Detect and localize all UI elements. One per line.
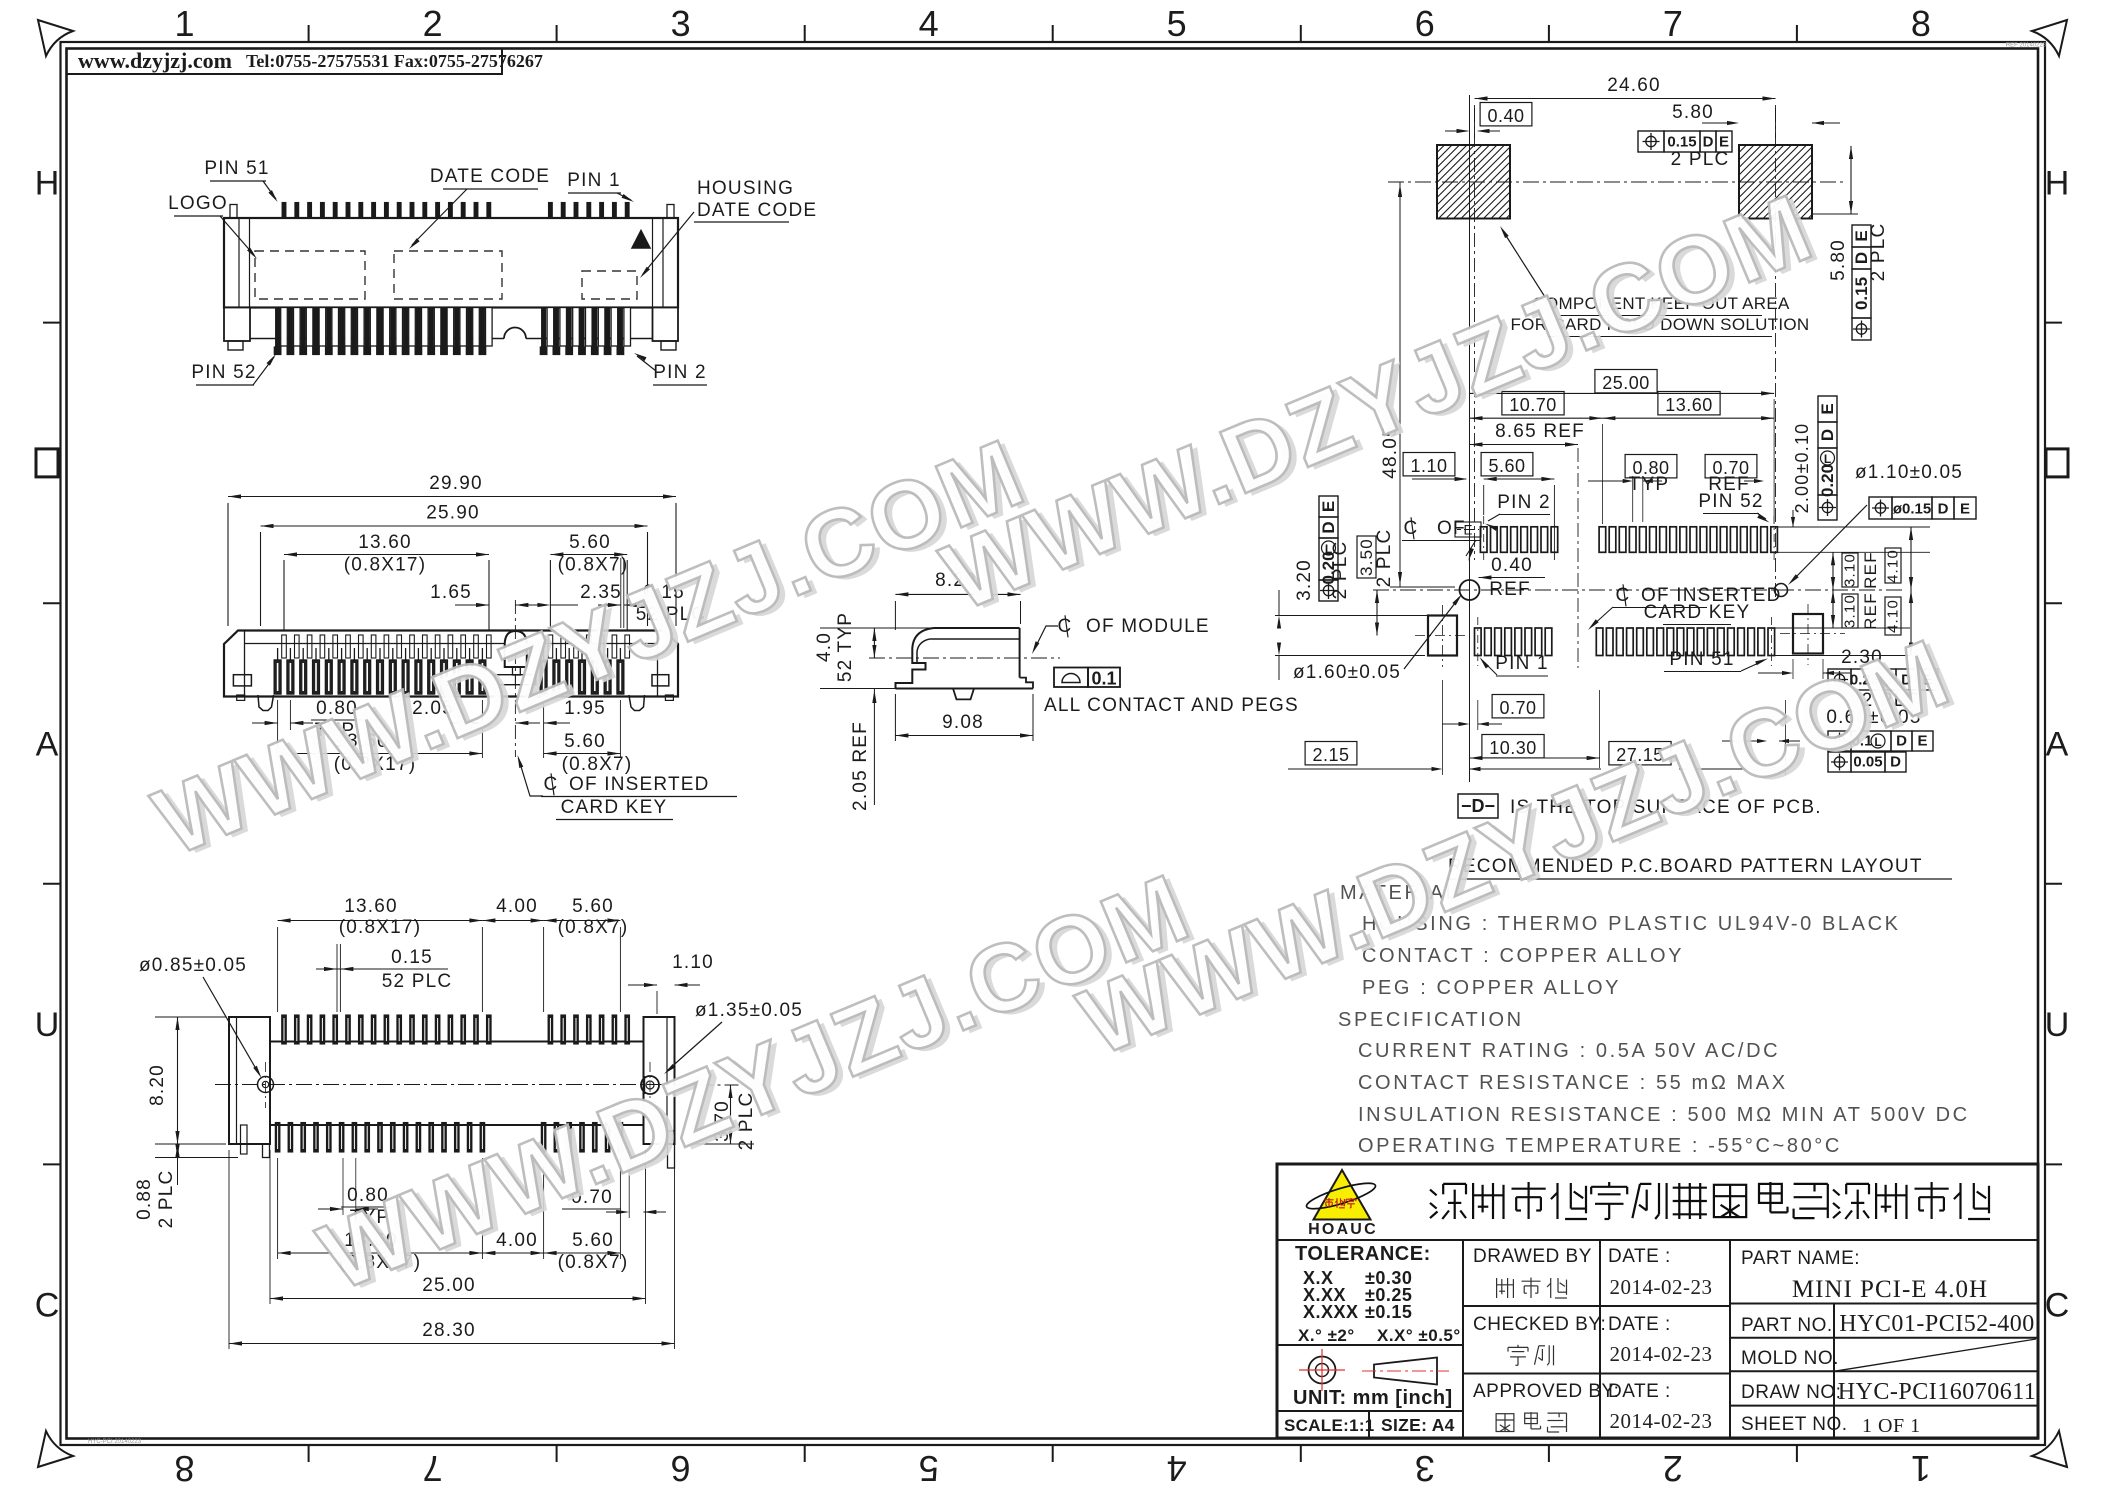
svg-text:0.70: 0.70 (1499, 698, 1536, 718)
svg-text:8: 8 (174, 1448, 194, 1488)
svg-text:SIZE: A4: SIZE: A4 (1381, 1415, 1455, 1435)
svg-text:PART NAME:: PART NAME: (1741, 1248, 1860, 1269)
svg-text:13.60: 13.60 (358, 532, 412, 553)
svg-text:TYP: TYP (1629, 474, 1670, 495)
svg-text:2014-02-23: 2014-02-23 (1610, 1342, 1713, 1366)
svg-text:5.60: 5.60 (564, 731, 606, 752)
svg-text:OF MODULE: OF MODULE (1086, 616, 1210, 637)
svg-text:APPROVED BY:: APPROVED BY: (1473, 1381, 1619, 1402)
svg-text:SCALE:1:1: SCALE:1:1 (1284, 1416, 1375, 1435)
svg-text:7: 7 (423, 1448, 443, 1488)
svg-text:DATE CODE: DATE CODE (697, 200, 817, 221)
svg-text:H: H (2045, 164, 2070, 202)
svg-text:5.60: 5.60 (569, 532, 611, 553)
svg-text:SPECIFICATION: SPECIFICATION (1338, 1009, 1524, 1031)
svg-text:8: 8 (1911, 3, 1931, 44)
svg-text:HOUSING: HOUSING (697, 178, 794, 199)
svg-text:HYC-PCI16070611: HYC-PCI16070611 (1838, 1379, 2037, 1405)
svg-text:3: 3 (671, 3, 691, 44)
svg-text:CARD KEY: CARD KEY (561, 797, 668, 818)
svg-text:24.60: 24.60 (1607, 75, 1661, 96)
svg-text:Tel:0755-27575531 Fax:0755-27: Tel:0755-27575531 Fax:0755-27576267 (246, 51, 543, 71)
svg-text:25.00: 25.00 (1602, 373, 1650, 393)
svg-text:1: 1 (1911, 1448, 1931, 1488)
svg-text:10.30: 10.30 (1489, 738, 1537, 758)
svg-text:X.XXX: X.XXX (1303, 1302, 1359, 1322)
svg-text:4.00: 4.00 (496, 896, 538, 917)
svg-text:U: U (35, 1006, 60, 1044)
svg-text:2 PLC: 2 PLC (1374, 529, 1395, 588)
svg-text:(0.8X17): (0.8X17) (344, 555, 426, 576)
svg-text:CHECKED BY:: CHECKED BY: (1473, 1314, 1606, 1335)
svg-text:0.15: 0.15 (391, 947, 433, 968)
svg-text:PIN 52: PIN 52 (191, 362, 256, 383)
svg-text:2.00±0.10: 2.00±0.10 (1792, 423, 1812, 514)
svg-text:2: 2 (1663, 1448, 1683, 1488)
svg-text:PIN 2: PIN 2 (1497, 492, 1551, 513)
svg-text:2: 2 (423, 3, 443, 44)
svg-text:1.10: 1.10 (672, 952, 714, 973)
svg-text:E: E (1719, 134, 1729, 151)
svg-text:0.15: 0.15 (1667, 134, 1696, 151)
svg-text:OF: OF (1437, 518, 1466, 539)
svg-text:52 PLC: 52 PLC (382, 971, 453, 992)
svg-text:MOLD NO.: MOLD NO. (1741, 1348, 1839, 1369)
svg-text:2.05 REF: 2.05 REF (850, 721, 871, 811)
svg-text:A: A (2046, 726, 2069, 764)
svg-text:DRAWED BY :: DRAWED BY : (1473, 1246, 1603, 1267)
svg-text:0.20: 0.20 (1818, 464, 1837, 497)
svg-text:5: 5 (919, 1448, 939, 1488)
svg-text:1.10: 1.10 (1410, 456, 1447, 476)
svg-text:REF: REF (1861, 592, 1880, 630)
svg-text:E: E (1319, 501, 1338, 512)
svg-text:D: D (1938, 501, 1949, 518)
svg-text:REF: REF (1708, 474, 1750, 495)
svg-text:E: E (1960, 501, 1970, 518)
svg-text:1.65: 1.65 (430, 582, 472, 603)
svg-text:REF: REF (1861, 551, 1880, 589)
svg-text:4.10: 4.10 (1885, 549, 1902, 583)
svg-text:29.90: 29.90 (429, 473, 483, 494)
svg-text:25.90: 25.90 (426, 503, 480, 524)
svg-text:SHEET NO.: SHEET NO. (1741, 1414, 1848, 1435)
svg-text:PIN 2: PIN 2 (653, 362, 707, 383)
svg-text:4.0: 4.0 (814, 632, 835, 662)
svg-text:U: U (2045, 1006, 2070, 1044)
svg-text:DATE :: DATE : (1608, 1381, 1671, 1402)
svg-text:ø1.60±0.05: ø1.60±0.05 (1293, 662, 1401, 683)
svg-text:INSULATION RESISTANCE : 500 MΩ: INSULATION RESISTANCE : 500 MΩ MIN AT 50… (1358, 1104, 1970, 1126)
svg-text:1 OF 1: 1 OF 1 (1862, 1415, 1921, 1437)
svg-text:5.80: 5.80 (1672, 102, 1714, 123)
svg-text:PART NO.: PART NO. (1741, 1315, 1833, 1336)
svg-text:6: 6 (671, 1448, 691, 1488)
svg-text:(0.8X7): (0.8X7) (558, 555, 629, 576)
svg-text:8.65 REF: 8.65 REF (1495, 421, 1585, 442)
svg-text:DATE :: DATE : (1608, 1246, 1671, 1267)
svg-text:PIN 51: PIN 51 (1669, 649, 1734, 670)
svg-text:DRAW NO:: DRAW NO: (1741, 1382, 1841, 1403)
svg-text:REF: REF (1489, 579, 1531, 600)
svg-text:X.° ±2°: X.° ±2° (1298, 1326, 1355, 1345)
svg-text:5.60: 5.60 (1488, 456, 1525, 476)
svg-text:8.20: 8.20 (147, 1064, 168, 1106)
svg-text:ALL CONTACT AND PEGS: ALL CONTACT AND PEGS (1044, 695, 1299, 716)
svg-text:D: D (1703, 134, 1714, 151)
svg-text:28.30: 28.30 (422, 1320, 476, 1341)
svg-text:52 TYP: 52 TYP (835, 612, 856, 682)
svg-text:6: 6 (1415, 3, 1435, 44)
svg-text:2 PLC: 2 PLC (156, 1170, 177, 1229)
svg-text:C: C (35, 1287, 60, 1325)
svg-text:5.60: 5.60 (572, 1230, 614, 1251)
svg-text:2014-02-23: 2014-02-23 (1610, 1409, 1713, 1433)
svg-text:(0.8X7): (0.8X7) (562, 754, 633, 775)
svg-text:0.40: 0.40 (1491, 555, 1533, 576)
svg-text:PIN 1: PIN 1 (1495, 653, 1549, 674)
svg-text:LOGO: LOGO (168, 193, 228, 214)
svg-text:REF 20140223: REF 20140223 (2006, 43, 2047, 49)
svg-text:±0.15: ±0.15 (1365, 1302, 1412, 1322)
svg-text:MINI PCI-E 4.0H: MINI PCI-E 4.0H (1792, 1276, 1988, 1303)
svg-text:TOLERANCE:: TOLERANCE: (1295, 1243, 1431, 1265)
svg-text:2 PLC: 2 PLC (1868, 223, 1889, 282)
svg-text:5: 5 (1167, 3, 1187, 44)
svg-text:E: E (1463, 523, 1472, 538)
svg-text:CURRENT RATING : 0.5A 50V AC/D: CURRENT RATING : 0.5A 50V AC/DC (1358, 1040, 1780, 1062)
svg-text:HYC-PCI 20140223: HYC-PCI 20140223 (88, 1439, 142, 1445)
svg-text:ø1.10±0.05: ø1.10±0.05 (1855, 462, 1963, 483)
svg-text:ø0.15: ø0.15 (1893, 501, 1931, 518)
svg-text:4: 4 (919, 3, 939, 44)
svg-text:2 PLC: 2 PLC (1671, 149, 1730, 170)
svg-text:OF INSERTED: OF INSERTED (569, 774, 710, 795)
svg-text:2.15: 2.15 (1312, 745, 1349, 765)
svg-text:A: A (36, 726, 59, 764)
svg-text:PIN 1: PIN 1 (567, 170, 621, 191)
svg-text:H: H (35, 164, 60, 202)
svg-text:HOAUC: HOAUC (1308, 1221, 1378, 1238)
svg-text:13.60: 13.60 (1665, 395, 1713, 415)
svg-text:E: E (1818, 403, 1837, 414)
svg-text:2014-02-23: 2014-02-23 (1610, 1275, 1713, 1299)
svg-text:(0.8X7): (0.8X7) (558, 1252, 629, 1273)
svg-text:3: 3 (1415, 1448, 1435, 1488)
svg-text:CARD KEY: CARD KEY (1644, 602, 1751, 623)
svg-text:www.dzyjzj.com: www.dzyjzj.com (78, 48, 232, 73)
svg-text:9.08: 9.08 (942, 712, 984, 733)
svg-text:D: D (1319, 521, 1338, 533)
svg-text:D: D (1890, 754, 1901, 771)
svg-text:3.20: 3.20 (1294, 559, 1315, 601)
svg-text:7: 7 (1663, 3, 1683, 44)
svg-text:3.10: 3.10 (1842, 553, 1859, 587)
svg-text:3.10: 3.10 (1842, 594, 1859, 628)
svg-text:C: C (2045, 1287, 2070, 1325)
svg-text:0.40: 0.40 (1487, 106, 1524, 126)
svg-text:2 PLC: 2 PLC (1330, 541, 1351, 600)
svg-text:D: D (1818, 429, 1837, 441)
svg-text:L: L (1824, 452, 1831, 466)
svg-text:OPERATING TEMPERATURE : -55°C~: OPERATING TEMPERATURE : -55°C~80°C (1358, 1135, 1842, 1157)
svg-text:DATE :: DATE : (1608, 1314, 1671, 1335)
svg-text:0.88: 0.88 (134, 1178, 155, 1220)
svg-text:5.60: 5.60 (572, 896, 614, 917)
svg-text:X.X° ±0.5°: X.X° ±0.5° (1377, 1326, 1461, 1345)
svg-text:ø0.85±0.05: ø0.85±0.05 (139, 955, 247, 976)
svg-text:PEG : COPPER ALLOY: PEG : COPPER ALLOY (1362, 977, 1621, 999)
svg-text:13.60: 13.60 (344, 896, 398, 917)
svg-text:CONTACT RESISTANCE : 55 mΩ MAX: CONTACT RESISTANCE : 55 mΩ MAX (1358, 1072, 1788, 1094)
svg-text:1: 1 (174, 3, 194, 44)
svg-text:UNIT: mm [inch]: UNIT: mm [inch] (1293, 1387, 1453, 1409)
svg-text:4: 4 (1167, 1448, 1187, 1488)
svg-text:HYC01-PCI52-400: HYC01-PCI52-400 (1839, 1311, 2035, 1337)
svg-text:PIN 51: PIN 51 (204, 158, 269, 179)
svg-text:DATE CODE: DATE CODE (430, 166, 550, 187)
svg-text:0.1: 0.1 (1091, 669, 1116, 689)
